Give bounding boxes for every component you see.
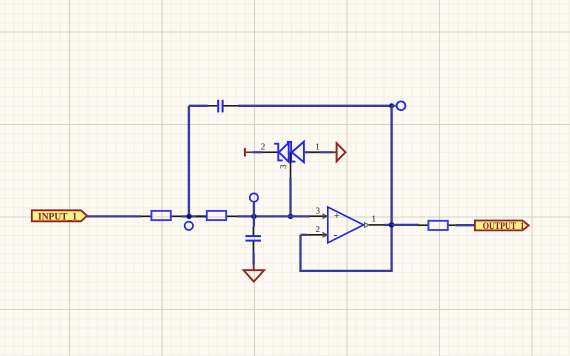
no-ERC circle below node A xyxy=(185,222,193,230)
wire stub to no-ERC circle xyxy=(392,105,397,107)
svg-text:OUTPUT_1: OUTPUT_1 xyxy=(483,221,525,232)
wire diode pin1 stub xyxy=(320,151,333,153)
no-ERC circle above node C xyxy=(250,193,258,201)
junction node C (cap branch) xyxy=(251,214,256,219)
junction top right corner xyxy=(389,103,394,108)
pin 2 of diode pair xyxy=(252,141,277,152)
svg-text:3: 3 xyxy=(316,206,321,216)
wire top feedback horizontal right xyxy=(238,105,392,107)
wire feedback loop bottom xyxy=(301,225,392,271)
capacitor C2 xyxy=(246,227,262,253)
wire R3 to OUTPUT port xyxy=(455,224,475,226)
zener diode D1 (left) xyxy=(274,143,289,162)
junction node A xyxy=(186,214,191,219)
wire right vertical from top to output node xyxy=(390,106,392,225)
wire input port to R1 xyxy=(87,215,141,217)
svg-text:INPUT_1: INPUT_1 xyxy=(38,211,77,222)
zener diode D2 (right) xyxy=(287,142,304,163)
svg-text:-: - xyxy=(334,229,338,241)
port OUTPUT_1 xyxy=(475,221,529,232)
resistor R2 xyxy=(196,211,237,220)
pin 1 of op-amp (output) xyxy=(365,214,385,228)
capacitor C1 xyxy=(208,100,239,113)
op-amp U1 xyxy=(328,207,364,243)
wire node D to R3 xyxy=(392,224,419,226)
no-ERC circle top right xyxy=(397,101,406,110)
pin 1 of diode pair xyxy=(304,141,320,152)
wire pin2 stub xyxy=(301,234,307,236)
svg-text:1: 1 xyxy=(315,141,320,151)
wire feedback left vertical xyxy=(188,106,190,217)
wire diode middle pin to input net xyxy=(289,178,291,217)
resistor R3 xyxy=(418,221,455,230)
wire circle stub down to node C and below xyxy=(253,202,255,227)
resistor R1 xyxy=(141,211,182,220)
wire top feedback horizontal left xyxy=(189,105,208,107)
junction node B (diode to input net) xyxy=(288,214,293,219)
junction node D (output) xyxy=(389,222,395,228)
svg-text:+: + xyxy=(334,211,340,222)
power port bar (diode pin 2 rail) xyxy=(245,148,253,157)
pin 3 of op-amp xyxy=(310,206,328,219)
wire cap to ground xyxy=(252,252,254,264)
svg-text:2: 2 xyxy=(261,141,266,151)
pin 2 of op-amp xyxy=(307,224,328,237)
wire node A to op-amp pin3 xyxy=(196,215,207,217)
svg-text:1: 1 xyxy=(372,214,377,224)
ground xyxy=(244,265,265,282)
port INPUT_1 xyxy=(32,210,87,222)
svg-text:3: 3 xyxy=(278,164,288,169)
wire R1 to R2 through node A xyxy=(182,215,197,217)
power port arrow (diode pin 1 rail) xyxy=(332,143,346,161)
wire R2 to node C to op-amp xyxy=(237,215,310,217)
pin 3 of diode pair (middle, down) xyxy=(278,152,290,177)
svg-text:2: 2 xyxy=(316,224,321,234)
wire op-amp out to node D xyxy=(385,224,392,226)
